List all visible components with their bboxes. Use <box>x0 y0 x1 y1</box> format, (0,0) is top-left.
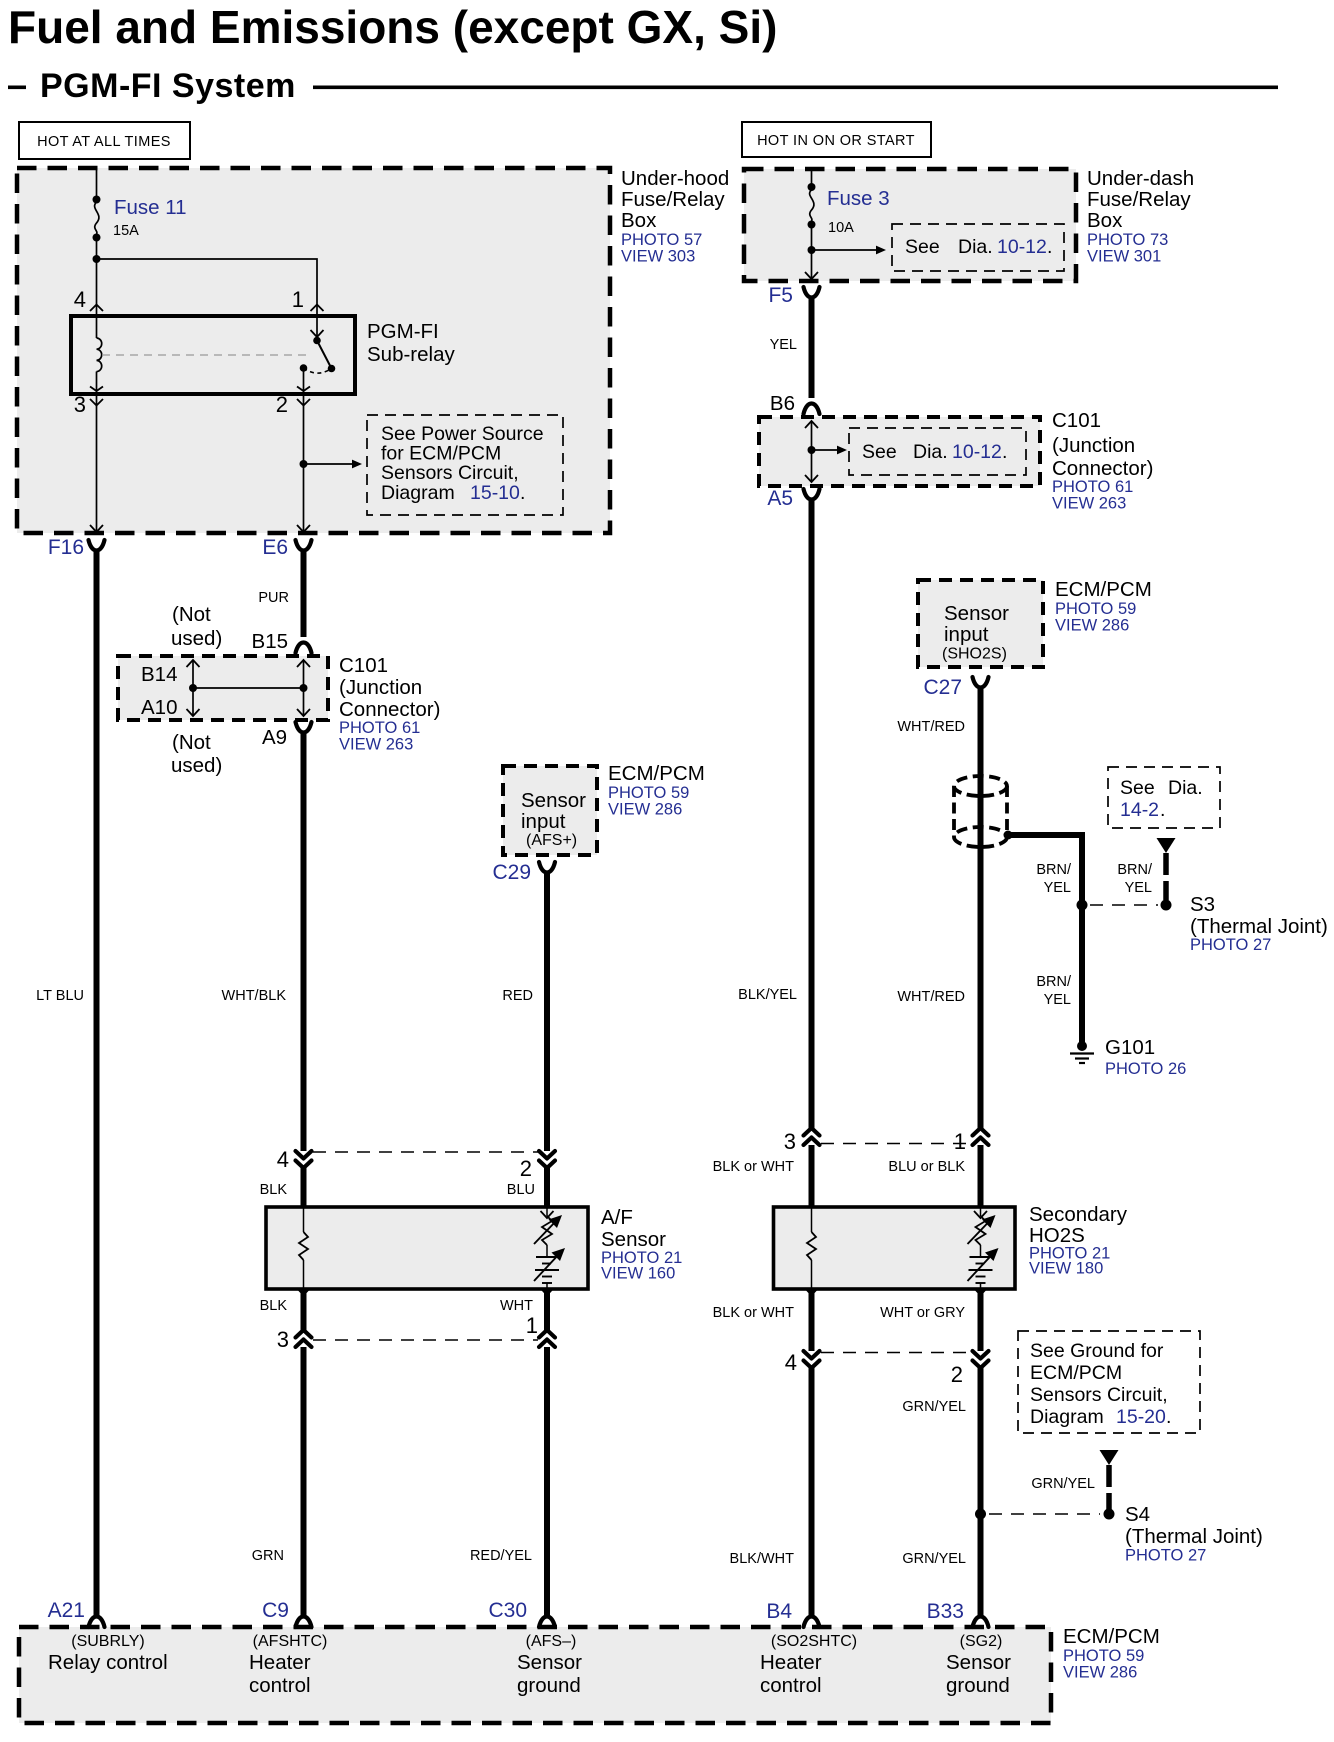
terminal AFS- sensor ground <box>517 1633 582 1697</box>
svg-text:C30: C30 <box>488 1599 527 1622</box>
svg-text:See Ground for: See Ground for <box>1030 1340 1164 1362</box>
relay coil <box>97 316 102 394</box>
svg-text:Sensor: Sensor <box>517 1651 582 1674</box>
svg-text:A/F: A/F <box>601 1206 633 1229</box>
shield drain junction node <box>1004 831 1013 840</box>
svg-text:15A: 15A <box>113 223 139 239</box>
svg-text:C101: C101 <box>1052 409 1101 432</box>
svg-text:(Thermal Joint): (Thermal Joint) <box>1125 1525 1263 1548</box>
svg-text:BRN/: BRN/ <box>1036 974 1072 990</box>
svg-text:input: input <box>521 810 566 833</box>
ECM/PCM label (AFS+) <box>608 762 705 819</box>
svg-text:B4: B4 <box>766 1600 792 1623</box>
ECM/PCM bottom box <box>19 1627 1051 1723</box>
svg-text:Dia.: Dia. <box>1168 777 1203 799</box>
HO2S heater resistor <box>807 1207 816 1289</box>
relay switch <box>300 316 336 394</box>
svg-text:Fuel and Emissions (except GX,: Fuel and Emissions (except GX, Si) <box>8 1 777 53</box>
svg-text:Sensor: Sensor <box>521 789 586 812</box>
ECM/PCM label (SHO2S) <box>1055 578 1152 635</box>
svg-text:LT BLU: LT BLU <box>36 988 84 1004</box>
svg-text:A21: A21 <box>48 1599 85 1622</box>
svg-text:14-2: 14-2 <box>1120 799 1159 821</box>
svg-text:4: 4 <box>277 1147 289 1172</box>
Secondary HO2S labels <box>1029 1203 1128 1278</box>
svg-text:VIEW 286: VIEW 286 <box>1055 617 1129 635</box>
svg-text:(SUBRLY): (SUBRLY) <box>71 1633 145 1650</box>
svg-text:3: 3 <box>784 1129 796 1154</box>
svg-text:used): used) <box>171 754 222 777</box>
wire GRN/YEL (pin 2 to B33) <box>978 1368 984 1617</box>
junction node below fuse 11 <box>93 255 101 263</box>
svg-text:C101: C101 <box>339 654 388 677</box>
svg-text:A5: A5 <box>767 487 793 510</box>
svg-text:VIEW 301: VIEW 301 <box>1087 248 1161 266</box>
svg-text:1: 1 <box>954 1129 966 1154</box>
node S3 splice dot left <box>1077 900 1088 911</box>
svg-text:PHOTO 59: PHOTO 59 <box>608 784 689 802</box>
terminal SO2SHTC heater control <box>760 1633 857 1697</box>
ECM/PCM sensor input (AFS+) box <box>503 766 597 855</box>
wires into HO2S <box>809 1145 815 1207</box>
C101 right labels <box>1052 409 1153 513</box>
pin B14/A10 internal link <box>187 660 311 716</box>
dashed link pin3-pin1 (HO2S) <box>821 1143 971 1145</box>
wire BRN/YEL shield drain <box>1008 835 1082 905</box>
svg-text:BLU: BLU <box>507 1182 535 1198</box>
svg-text:BLK/WHT: BLK/WHT <box>730 1551 795 1567</box>
svg-text:PUR: PUR <box>258 590 289 606</box>
svg-text:Under-hood: Under-hood <box>621 167 729 190</box>
wire LT BLU (F16 to A21) <box>94 550 100 1617</box>
svg-text:4: 4 <box>74 287 86 312</box>
svg-text:VIEW 286: VIEW 286 <box>1063 1664 1137 1682</box>
svg-text:See: See <box>905 236 940 258</box>
wires A/F to pins 3/1 <box>301 1289 307 1330</box>
rule line <box>313 86 1278 90</box>
svg-text:Sub-relay: Sub-relay <box>367 343 455 366</box>
ECM/PCM bottom label <box>1063 1625 1160 1682</box>
svg-text:15-10: 15-10 <box>470 482 520 504</box>
svg-text:Diagram: Diagram <box>1030 1406 1104 1428</box>
in-line connector pin 1 (A/F) <box>539 1330 555 1347</box>
junction node below fuse 3 <box>808 246 816 254</box>
svg-text:(AFSHTC): (AFSHTC) <box>253 1633 328 1650</box>
wire fuse to relay pin 4 <box>96 238 98 317</box>
svg-text:A10: A10 <box>141 696 177 719</box>
in-line connector pin 1 (HO2S) <box>973 1128 989 1145</box>
svg-text:See: See <box>862 441 897 463</box>
fuse F11 symbol <box>93 196 101 242</box>
svg-text:Dia.: Dia. <box>913 441 948 463</box>
wire RED/YEL (pin 1 to C30) <box>544 1347 550 1617</box>
svg-text:PGM-FI: PGM-FI <box>367 320 439 343</box>
junction connector C101 (left) box <box>118 656 328 720</box>
svg-text:GRN/YEL: GRN/YEL <box>902 1399 966 1415</box>
svg-text:VIEW 180: VIEW 180 <box>1029 1260 1103 1278</box>
svg-text:BLK or WHT: BLK or WHT <box>713 1305 795 1321</box>
svg-text:GRN/YEL: GRN/YEL <box>902 1551 966 1567</box>
svg-text:(Junction: (Junction <box>339 676 422 699</box>
svg-text:(AFS–): (AFS–) <box>526 1633 577 1650</box>
wires HO2S to pins 4/2 <box>809 1289 815 1351</box>
node S4 splice dot left (on GRN/YEL wire) <box>975 1509 986 1520</box>
svg-text:BRN/: BRN/ <box>1036 862 1072 878</box>
svg-text:(SG2): (SG2) <box>960 1633 1003 1650</box>
HO2S sensing element (variable resistors) <box>968 1207 999 1289</box>
dashed link to S3 <box>1090 904 1158 906</box>
svg-text:E6: E6 <box>262 536 288 559</box>
in-line connector pin 4 (HO2S) <box>804 1351 820 1368</box>
dashed link pin3-pin1 <box>313 1339 538 1341</box>
svg-text:ECM/PCM: ECM/PCM <box>608 762 705 785</box>
C101 internal wire <box>805 421 847 482</box>
arrow to see-power-source note <box>304 463 355 465</box>
svg-text:2: 2 <box>276 392 288 417</box>
see power source note box <box>367 415 563 515</box>
wire relay pin3 to F16 <box>96 394 98 533</box>
svg-text:Connector): Connector) <box>339 698 440 721</box>
wire into fuse 3 <box>811 169 813 187</box>
svg-text:VIEW 263: VIEW 263 <box>1052 495 1126 513</box>
svg-text:.: . <box>520 482 525 504</box>
terminal AFSHTC heater control <box>249 1633 327 1697</box>
A/F Sensor box <box>266 1207 588 1289</box>
svg-text:Box: Box <box>621 209 657 232</box>
svg-text:1: 1 <box>526 1313 538 1338</box>
svg-text:RED: RED <box>502 988 533 1004</box>
in-line connector pin 3 (HO2S) <box>804 1128 820 1145</box>
wire GRN (pin 3 to C9) <box>301 1347 307 1617</box>
svg-text:Relay control: Relay control <box>48 1651 168 1674</box>
label S4 thermal joint <box>1125 1503 1263 1565</box>
svg-text:control: control <box>249 1674 311 1697</box>
see dia 10-12 note box (under-dash) <box>892 224 1064 271</box>
svg-text:Fuse 3: Fuse 3 <box>827 187 890 210</box>
svg-text:PHOTO 27: PHOTO 27 <box>1125 1547 1206 1565</box>
svg-text:ECM/PCM: ECM/PCM <box>1063 1625 1160 1648</box>
svg-text:input: input <box>944 623 989 646</box>
svg-text:YEL: YEL <box>1044 880 1071 896</box>
svg-text:ground: ground <box>517 1674 581 1697</box>
svg-text:VIEW 160: VIEW 160 <box>601 1265 675 1283</box>
wire WHT/BLK (A9 to A/F pin 4) <box>301 732 307 1151</box>
wires into A/F sensor <box>301 1168 307 1207</box>
svg-text:B14: B14 <box>141 663 177 686</box>
HOT AT ALL TIMES header box <box>19 122 190 159</box>
svg-text:PHOTO 73: PHOTO 73 <box>1087 231 1168 249</box>
svg-text:WHT or GRY: WHT or GRY <box>880 1305 965 1321</box>
in-line connector pin 4 (A/F) <box>296 1151 312 1168</box>
shield (shielded cable) symbol <box>954 776 1007 847</box>
C101 left labels <box>339 654 440 754</box>
ECM/PCM sensor input (SHO2S) box <box>918 580 1043 667</box>
svg-text:.: . <box>1166 1406 1171 1428</box>
svg-text:RED/YEL: RED/YEL <box>470 1548 532 1564</box>
svg-text:A9: A9 <box>262 726 287 749</box>
svg-text:Under-dash: Under-dash <box>1087 167 1194 190</box>
svg-text:YEL: YEL <box>1125 880 1152 896</box>
wire RED (C29 to A/F pin 2) <box>544 872 550 1151</box>
svg-text:(Junction: (Junction <box>1052 434 1135 457</box>
svg-text:BLK: BLK <box>260 1298 288 1314</box>
wire branch to relay pin 1 <box>97 259 318 316</box>
svg-text:ECM/PCM: ECM/PCM <box>1055 578 1152 601</box>
pin 2 border crossing <box>297 387 310 406</box>
svg-text:2: 2 <box>951 1362 963 1387</box>
A/F heater resistor <box>299 1207 308 1289</box>
svg-text:.: . <box>1047 236 1052 258</box>
svg-text:(AFS+): (AFS+) <box>526 832 577 849</box>
svg-text:HOT AT ALL TIMES: HOT AT ALL TIMES <box>37 134 171 150</box>
svg-text:BRN/: BRN/ <box>1117 862 1153 878</box>
wire WHT/RED (C27 to HO2S pin 1) <box>978 687 984 1128</box>
svg-text:used): used) <box>171 627 222 650</box>
svg-text:F5: F5 <box>768 284 793 307</box>
in-line connector pin 3 (A/F) <box>296 1330 312 1347</box>
junction node on pin2 wire <box>300 460 308 468</box>
svg-text:S3: S3 <box>1190 893 1215 916</box>
svg-text:YEL: YEL <box>770 337 797 353</box>
ground G101 <box>1070 1041 1094 1063</box>
HO2S exit crossings <box>805 1288 818 1295</box>
in-line connector pin 2 (HO2S) <box>973 1351 989 1368</box>
wire BLK/YEL (A5 to HO2S pin 3) <box>809 499 815 1128</box>
pin 1 border crossing <box>311 305 324 324</box>
svg-text:WHT/RED: WHT/RED <box>897 989 965 1005</box>
junction connector C101 (right) box <box>759 417 1040 486</box>
wire relay pin2 to E6 <box>303 394 305 533</box>
fuse F3 symbol <box>808 183 816 229</box>
wire GRN/YEL to Dia 15-20 (off-page triangle) <box>1100 1450 1119 1510</box>
under-hood fuse/relay box <box>17 168 610 533</box>
svg-text:(Thermal Joint): (Thermal Joint) <box>1190 915 1328 938</box>
svg-text:PGM-FI System: PGM-FI System <box>40 67 296 105</box>
terminal SUBRLY relay control <box>48 1633 168 1674</box>
wire BLK/WHT (pin 4 to B4) <box>809 1368 815 1617</box>
arrow to see-dia note <box>812 249 879 251</box>
terminal SG2 sensor ground <box>946 1633 1011 1697</box>
svg-text:Sensor: Sensor <box>601 1228 666 1251</box>
pin 4 border crossing <box>90 305 103 324</box>
svg-text:3: 3 <box>74 392 86 417</box>
svg-text:(SHO2S): (SHO2S) <box>942 646 1007 663</box>
svg-text:Fuse/Relay: Fuse/Relay <box>1087 188 1191 211</box>
svg-text:10A: 10A <box>828 220 854 236</box>
A/F sensing element (variable resistors) <box>534 1207 565 1289</box>
HOT IN ON OR START header box <box>742 122 931 157</box>
svg-text:Connector): Connector) <box>1052 457 1153 480</box>
svg-text:Fuse 11: Fuse 11 <box>114 196 187 219</box>
under-dash fuse/relay box <box>744 169 1076 281</box>
svg-text:.: . <box>1002 441 1007 463</box>
pin 3 border crossing <box>90 387 103 406</box>
svg-text:control: control <box>760 1674 822 1697</box>
svg-text:PHOTO 26: PHOTO 26 <box>1105 1060 1186 1078</box>
PGM-FI sub-relay box <box>71 316 355 394</box>
svg-text:B15: B15 <box>252 630 288 653</box>
svg-text:10-12: 10-12 <box>952 441 1002 463</box>
svg-text:VIEW 286: VIEW 286 <box>608 801 682 819</box>
svg-text:3: 3 <box>277 1327 289 1352</box>
wire: battery feed into fuse 11 <box>96 168 98 200</box>
svg-text:ECM/PCM: ECM/PCM <box>1030 1362 1122 1384</box>
svg-text:(SO2SHTC): (SO2SHTC) <box>771 1633 857 1650</box>
svg-text:Sensor: Sensor <box>944 602 1009 625</box>
svg-text:1: 1 <box>292 287 304 312</box>
svg-text:Diagram: Diagram <box>381 482 455 504</box>
svg-text:HOT IN ON OR START: HOT IN ON OR START <box>757 133 915 149</box>
svg-text:Sensor: Sensor <box>946 1651 1011 1674</box>
wire YEL (F5 to B6) <box>809 297 815 398</box>
svg-text:PHOTO 59: PHOTO 59 <box>1055 600 1136 618</box>
svg-text:PHOTO 59: PHOTO 59 <box>1063 1647 1144 1665</box>
wire BRN/YEL to Dia 14-2 (off-page triangle) <box>1157 838 1176 900</box>
see dia 14-2 note box <box>1108 767 1220 828</box>
svg-text:PHOTO 61: PHOTO 61 <box>1052 478 1133 496</box>
svg-text:BLK/YEL: BLK/YEL <box>738 987 797 1003</box>
svg-text:PHOTO 57: PHOTO 57 <box>621 231 702 249</box>
svg-text:See: See <box>1120 777 1155 799</box>
svg-text:(Not: (Not <box>172 731 211 754</box>
svg-text:GRN/YEL: GRN/YEL <box>1031 1476 1095 1492</box>
svg-text:C9: C9 <box>262 1599 289 1622</box>
svg-text:G101: G101 <box>1105 1036 1155 1059</box>
svg-text:2: 2 <box>520 1156 532 1181</box>
wire BRN/YEL to G101 <box>1079 905 1085 1042</box>
under-hood box label <box>621 167 729 266</box>
svg-text:ground: ground <box>946 1674 1010 1697</box>
svg-text:Fuse/Relay: Fuse/Relay <box>621 188 725 211</box>
svg-text:PHOTO 27: PHOTO 27 <box>1190 936 1271 954</box>
Secondary HO2S box <box>774 1207 1016 1289</box>
svg-text:S4: S4 <box>1125 1503 1150 1526</box>
dashed link pin4-pin2 (HO2S) <box>821 1352 971 1354</box>
svg-text:Heater: Heater <box>760 1651 822 1674</box>
svg-text:VIEW 263: VIEW 263 <box>339 736 413 754</box>
svg-text:15-20: 15-20 <box>1116 1406 1166 1428</box>
svg-text:.: . <box>1160 799 1165 821</box>
node S3 splice dot right <box>1161 900 1172 911</box>
A/F Sensor labels <box>601 1206 682 1283</box>
A/F exit crossings <box>297 1288 310 1295</box>
wire PUR (E6 to B15) <box>301 550 307 637</box>
svg-text:Dia.: Dia. <box>958 236 993 258</box>
wire fuse 3 down to F5 <box>811 225 813 282</box>
svg-text:4: 4 <box>785 1350 797 1375</box>
svg-text:10-12: 10-12 <box>997 236 1047 258</box>
svg-text:Box: Box <box>1087 209 1123 232</box>
svg-text:BLK or WHT: BLK or WHT <box>713 1159 795 1175</box>
under-dash box label <box>1087 167 1194 266</box>
svg-text:B33: B33 <box>927 1600 964 1623</box>
see ground note box <box>1018 1331 1200 1433</box>
dashed link to S4 <box>989 1513 1100 1515</box>
svg-text:Heater: Heater <box>249 1651 311 1674</box>
svg-text:WHT/RED: WHT/RED <box>897 719 965 735</box>
svg-text:Sensors Circuit,: Sensors Circuit, <box>1030 1384 1168 1406</box>
dashed link pin4-pin2 <box>313 1151 538 1153</box>
label S3 thermal joint <box>1190 893 1328 954</box>
svg-text:WHT: WHT <box>500 1298 533 1314</box>
svg-text:F16: F16 <box>48 536 84 559</box>
svg-text:B6: B6 <box>770 392 795 415</box>
relay coil-to-switch dashed link <box>102 354 308 356</box>
svg-text:BLU or BLK: BLU or BLK <box>888 1159 965 1175</box>
svg-text:WHT/BLK: WHT/BLK <box>222 988 287 1004</box>
in-line connector pin 2 (A/F) <box>539 1151 555 1168</box>
svg-text:GRN: GRN <box>252 1548 284 1564</box>
svg-text:C29: C29 <box>492 861 531 884</box>
svg-text:C27: C27 <box>923 676 962 699</box>
see dia 10-12 note box (C101) <box>849 428 1026 475</box>
svg-text:BLK: BLK <box>260 1182 288 1198</box>
subtitle: PGM-FI System <box>8 86 26 90</box>
node S4 splice dot right <box>1104 1509 1115 1520</box>
svg-text:YEL: YEL <box>1044 992 1071 1008</box>
svg-text:VIEW 303: VIEW 303 <box>621 248 695 266</box>
svg-text:PHOTO 61: PHOTO 61 <box>339 719 420 737</box>
svg-text:(Not: (Not <box>172 603 211 626</box>
svg-text:Secondary: Secondary <box>1029 1203 1128 1226</box>
